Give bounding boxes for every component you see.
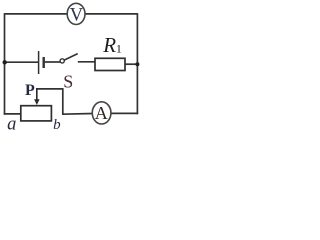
switch lever [64, 54, 78, 61]
svg-text:b: b [53, 117, 61, 132]
ammeter ellipse [92, 102, 111, 124]
wire switch to R1 [78, 61, 96, 63]
wire left vertical [4, 13, 6, 115]
svg-text:R: R [102, 33, 116, 57]
wire wiper vertical down [62, 88, 64, 114]
wire top from left corner to right corner [5, 13, 138, 15]
node right junction dot [135, 62, 139, 66]
svg-text:P: P [25, 82, 35, 99]
wire battery to switch [45, 61, 61, 63]
wire middle row battery feed [5, 61, 39, 63]
svg-text:a: a [7, 115, 16, 133]
battery short plate [43, 57, 45, 68]
svg-text:V: V [70, 4, 84, 25]
resistor R1 box [95, 58, 125, 70]
rheostat wiper arrow [34, 89, 40, 106]
wire R1 to right junction [125, 63, 138, 65]
node left junction dot [2, 60, 6, 64]
switch pivot circle [60, 59, 64, 63]
voltmeter U-V ellipse [67, 3, 85, 24]
rheostat box [21, 106, 52, 121]
wire bottom-left to rheostat [4, 113, 22, 115]
svg-text:A: A [95, 103, 108, 123]
svg-text:S: S [63, 72, 73, 92]
battery long plate [38, 51, 40, 74]
wire wiper horizontal [36, 88, 63, 90]
svg-text:1: 1 [116, 42, 122, 56]
wire to ammeter [62, 113, 93, 116]
wire ammeter to right corner [111, 112, 139, 114]
wire right vertical [136, 13, 138, 114]
